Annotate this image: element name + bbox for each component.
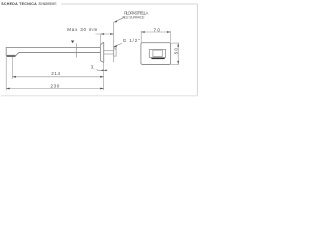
dimension 50	[171, 43, 180, 64]
svg-text:3.: 3.	[91, 64, 95, 69]
extension line left (tip)	[5, 55, 7, 90]
joint tick on spout	[75, 43, 77, 57]
svg-text:70: 70	[154, 27, 161, 32]
joint symbol	[71, 41, 74, 44]
dimension 214	[12, 71, 103, 78]
bottom page rule	[1, 95, 197, 97]
dimension Max 30 mm	[67, 27, 114, 44]
svg-text:SCHEDA TECNICA: SCHEDA TECNICA	[1, 2, 37, 6]
svg-text:TILE SURFACE: TILE SURFACE	[122, 16, 145, 20]
label FILO PIASTRELLA / TILE SURFACE	[122, 11, 149, 20]
svg-text:Max 30 mm: Max 30 mm	[67, 27, 97, 32]
extension line outlet	[11, 57, 13, 79]
svg-text:G 1/2": G 1/2"	[123, 38, 140, 43]
dimension 3 (flange depth)	[91, 64, 108, 71]
outlet slot (side view, dark)	[7, 56, 16, 57]
right page border	[196, 4, 198, 96]
svg-text:230: 230	[51, 84, 60, 89]
pipe G1/2 (side view)	[104, 51, 114, 54]
svg-text:214: 214	[51, 71, 60, 76]
wall flange (side view)	[100, 42, 103, 62]
svg-text:- TECHNICAL FEATURES: - TECHNICAL FEATURES	[38, 2, 57, 6]
dimension 70	[141, 27, 170, 42]
label G 1/2"	[114, 38, 141, 47]
title SCHEDA TECNICA	[1, 2, 57, 6]
extension line flange back	[103, 63, 105, 91]
spout front view inner opening	[153, 50, 162, 56]
leader to tile line	[114, 17, 125, 22]
top rule	[61, 3, 197, 5]
spout front view outer	[149, 49, 165, 57]
svg-text:50: 50	[173, 47, 178, 54]
outlet slot (front view, dark)	[151, 58, 164, 59]
in-wall fitting block	[114, 47, 116, 56]
wall plate (front view)	[141, 43, 171, 65]
tile surface line	[113, 22, 115, 62]
spout body outline (side view)	[6, 47, 100, 55]
dimension 230	[6, 84, 104, 90]
